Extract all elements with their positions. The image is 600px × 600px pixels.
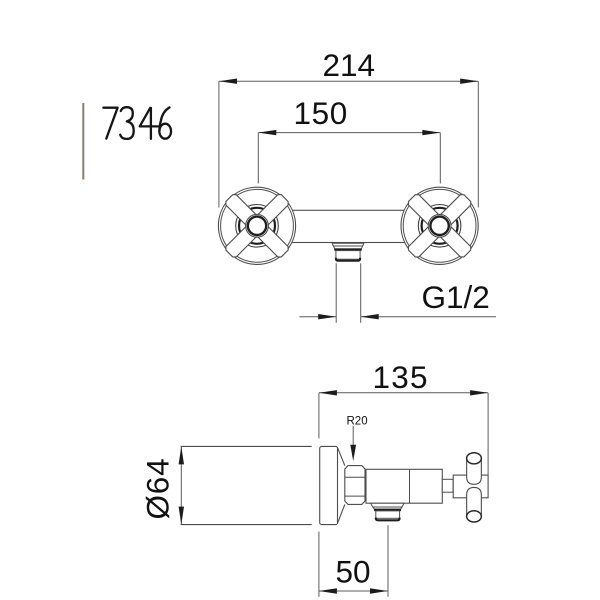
hub outer circle — [246, 214, 269, 237]
dimension 214 right extension line — [477, 81, 479, 207]
cross arm NW-SE — [407, 193, 473, 259]
center outlet collar lower — [333, 246, 362, 249]
center outlet threaded pipe — [336, 251, 360, 260]
dimension 50 left arrow — [319, 588, 337, 593]
svg-text:214: 214 — [323, 47, 376, 83]
diameter 64 dimension line — [180, 446, 182, 524]
handle outer skirt circle — [218, 187, 295, 264]
dimension 50 line — [319, 590, 388, 592]
dome ring thin — [418, 205, 461, 248]
wall cylinder bottom edge — [181, 524, 312, 526]
dimension 214 line — [219, 80, 478, 82]
svg-text:135: 135 — [373, 359, 429, 395]
hose outlet pipe — [376, 511, 400, 518]
dimension 150 right arrow — [422, 130, 440, 135]
svg-text:G1/2: G1/2 — [422, 279, 490, 315]
handle outer skirt circle — [401, 187, 478, 264]
dimension 50 left extension line lower segment — [318, 532, 320, 597]
R20 leader line — [352, 426, 354, 447]
hose outlet bold base — [374, 509, 401, 511]
dimension 150 left arrow — [258, 130, 276, 135]
cross arm NE-SW — [407, 193, 473, 259]
handle top arm — [467, 458, 482, 484]
cone taper top line — [338, 448, 345, 466]
dimension 214 right arrow — [460, 79, 478, 84]
G1/2 right arrow head — [361, 314, 379, 319]
center outlet collar upper — [332, 243, 364, 246]
right handle — [401, 187, 478, 264]
dimension 50 right extension line — [387, 525, 389, 597]
dimension 135 line — [319, 392, 488, 394]
hub bold ring — [430, 217, 448, 235]
faucet body bar — [240, 210, 458, 242]
hub outer circle — [428, 214, 451, 237]
handle top arm end ellipse — [467, 453, 482, 464]
handle bottom arm — [467, 487, 482, 516]
cross arm NW-SE — [224, 193, 290, 259]
center outlet bold bottom cap — [336, 258, 360, 261]
G1/2 right arrow line — [361, 316, 496, 318]
dimension 135 left extension line upper segment — [318, 393, 320, 439]
diameter 64 top arrow — [179, 446, 184, 464]
hex nut facet line lower — [345, 495, 365, 497]
svg-text:150: 150 — [294, 95, 348, 131]
cone taper bottom line — [338, 504, 345, 523]
dimension 150 left extension line — [257, 133, 259, 184]
diameter 64 bottom arrow — [179, 507, 184, 525]
hose outlet collar lower — [373, 507, 402, 509]
G1/2 left arrow head — [318, 314, 336, 319]
model number bar — [82, 103, 84, 180]
handle hub block — [453, 475, 488, 498]
dimension 135 right arrow — [470, 390, 488, 395]
R20 arrow head — [350, 445, 356, 461]
hex nut — [345, 466, 365, 505]
left handle — [218, 187, 295, 264]
handle bottom arm end ellipse — [467, 511, 482, 522]
dimension 150 line — [258, 132, 440, 134]
hose outlet bold bottom cap — [376, 518, 400, 521]
svg-text:R20: R20 — [347, 415, 368, 427]
escutcheon flange — [320, 446, 338, 524]
hose outlet collar upper — [371, 503, 404, 507]
dimension 150 right extension line — [439, 133, 441, 184]
dimension 214 left arrow — [219, 79, 237, 84]
valve body divider — [409, 469, 411, 503]
dimension 214 left extension line — [218, 81, 220, 207]
dome ring bold — [239, 208, 275, 244]
dimension 135 right extension line — [487, 393, 489, 475]
G1/2 right extension line — [360, 263, 362, 323]
dimension 135 left arrow — [319, 390, 337, 395]
dome ring thin — [236, 205, 279, 248]
hub bold ring — [248, 217, 266, 235]
G1/2 left arrow line — [299, 316, 336, 318]
dimension 50 right arrow — [370, 588, 388, 593]
cross arm NE-SW — [224, 193, 290, 259]
svg-text:50: 50 — [336, 554, 371, 590]
handle inner skirt circle — [403, 189, 476, 262]
model number 7346 — [103, 107, 171, 139]
valve neck — [442, 479, 453, 492]
G1/2 left extension line — [335, 263, 337, 323]
svg-text:Ø64: Ø64 — [140, 458, 176, 520]
handle inner skirt circle — [221, 189, 294, 262]
center outlet collar bold base — [334, 249, 362, 251]
dome ring bold — [422, 208, 458, 244]
wall cylinder top edge — [181, 445, 312, 447]
valve body — [366, 469, 442, 503]
hex nut facet line upper — [345, 476, 365, 478]
